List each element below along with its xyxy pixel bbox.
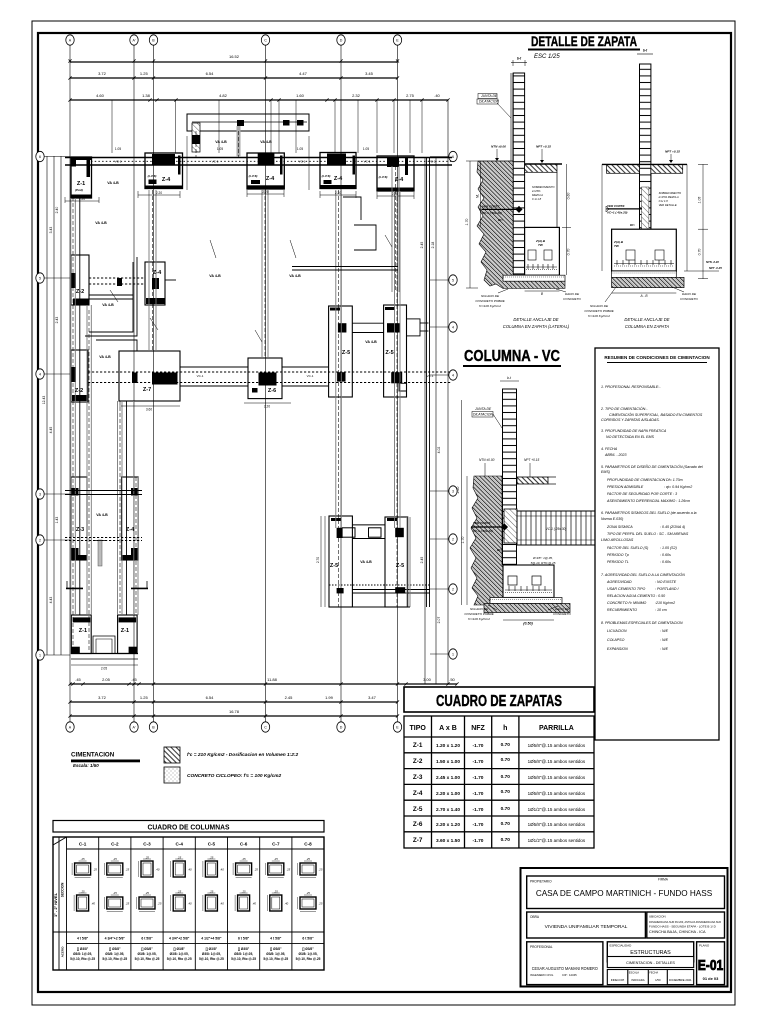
svg-text:CASA DE CAMPO MARTINICH - FUND: CASA DE CAMPO MARTINICH - FUNDO HASS [536,889,713,898]
svg-text:1Ø5/8"@.15 ambos sentidos: 1Ø5/8"@.15 ambos sentidos [528,791,586,796]
svg-text:2.20: 2.20 [156,191,162,195]
svg-text:: Df= 1.70m: : Df= 1.70m [664,478,683,482]
svg-text:ZONA SISMICA: ZONA SISMICA [606,525,633,529]
svg-text:Df=: Df= [497,548,502,552]
svg-text:5: 5 [39,276,41,280]
svg-text:3.60: 3.60 [146,408,152,412]
svg-text:RESUMEN DE CONDICIONES DE CIME: RESUMEN DE CONDICIONES DE CIMENTACION [604,355,710,360]
svg-text:4.02: 4.02 [437,447,441,454]
svg-text:2.18: 2.18 [431,242,435,249]
svg-text:1.05: 1.05 [363,147,369,151]
svg-text:Z-4: Z-4 [153,270,162,276]
svg-text:5@.10, Rto @.25: 5@.10, Rto @.25 [296,957,321,961]
svg-text:CONCRETO: CONCRETO [553,612,571,616]
svg-text:VC-1: VC-1 [364,160,371,164]
svg-text:DADO DE: DADO DE [682,292,697,296]
svg-text:Z-5: Z-5 [385,350,393,356]
svg-text:Z-3: Z-3 [413,774,423,781]
svg-text:1Ø5/8"@.15 ambos sentidos: 1Ø5/8"@.15 ambos sentidos [528,743,586,748]
svg-text:ESCALA: ESCALA [629,971,640,975]
svg-text:VC=1 (.40x.20): VC=1 (.40x.20) [607,211,627,215]
svg-text:CONCRETO: CONCRETO [563,297,581,301]
svg-text:2.60: 2.60 [456,487,460,495]
svg-text:SOBRECIMIENTO: SOBRECIMIENTO [659,191,682,195]
svg-text:2.45 x 1.00: 2.45 x 1.00 [436,775,460,781]
svg-text:EMS): EMS) [601,470,610,474]
svg-text:f'c=100 Kg/Cm2: f'c=100 Kg/Cm2 [468,617,490,621]
svg-text:EXPANSION: EXPANSION [607,647,628,651]
svg-text:D: D [340,38,343,42]
svg-text:1Ø5/8"@.15 ambos sentidos: 1Ø5/8"@.15 ambos sentidos [528,775,586,780]
svg-text:VC-1: VC-1 [197,374,204,378]
svg-text:1: 1 [39,653,41,657]
svg-text:f'c=100 Kg/Cm2: f'c=100 Kg/Cm2 [588,314,610,318]
svg-text:1.05: 1.05 [217,147,223,151]
svg-text:VC-1 (.40x.20): VC-1 (.40x.20) [473,529,493,533]
svg-text:DETALLE ANCLAJE DE: DETALLE ANCLAJE DE [513,317,558,322]
svg-text:VA 4-B: VA 4-B [96,513,108,517]
svg-text:ESTRUCTURAS: ESTRUCTURAS [630,950,671,956]
svg-text:1.99: 1.99 [325,695,334,700]
svg-text:4.47: 4.47 [299,71,308,76]
svg-text:1.50 x 1.00: 1.50 x 1.00 [436,759,460,765]
svg-text:[] Ø3/8": [] Ø3/8" [77,947,89,951]
svg-text:C:H 1:8: C:H 1:8 [659,199,669,203]
svg-text:-1.70: -1.70 [473,759,484,765]
svg-text:TIPO DE PERFIL DEL SUELO: TIPO DE PERFIL DEL SUELO : SC - SM ARENA… [607,532,689,536]
svg-text:Ø3/8: 1@.05,: Ø3/8: 1@.05, [105,952,124,956]
svg-text:PROFESIONAL: PROFESIONAL [530,945,553,949]
svg-text:e=15%: e=15% [532,189,541,193]
svg-text:Z-2: Z-2 [76,289,84,295]
svg-text:C-1: C-1 [79,842,87,847]
svg-text:VA 4-B: VA 4-B [215,140,227,144]
svg-text:6.54: 6.54 [206,695,215,700]
svg-text:C: C [264,725,267,729]
svg-text:DADO DE: DADO DE [555,607,570,611]
svg-text:1.05: 1.05 [297,147,303,151]
svg-text:[] Ø3/8": [] Ø3/8" [270,947,282,951]
svg-text:D: D [340,725,343,729]
svg-text:VC-1: VC-1 [115,160,122,164]
svg-text:4: 4 [452,325,454,329]
svg-text:0.60: 0.60 [567,193,571,200]
svg-text:E-01: E-01 [698,958,724,974]
svg-text:DETALLE DE ZAPATA: DETALLE DE ZAPATA [531,33,637,49]
svg-text:Ø3/8: 1@.05,: Ø3/8: 1@.05, [137,952,156,956]
svg-text:.45: .45 [75,677,81,682]
svg-text:CONCRETO CICLOPEO: f'c =: CONCRETO CICLOPEO: f'c = 100 Kg/cm2 [187,773,282,779]
svg-text:1Ø5/8"@.15 ambos sentidos: 1Ø5/8"@.15 ambos sentidos [528,759,586,764]
svg-text:3.47: 3.47 [368,695,377,700]
svg-text:5: 5 [452,278,454,282]
svg-text::210 Kg/cm2: :210 Kg/cm2 [655,601,675,605]
svg-text:Z-6: Z-6 [413,821,423,828]
svg-text:1.20: 1.20 [79,197,85,201]
svg-text:2.20 x 1.00: 2.20 x 1.00 [436,791,460,797]
svg-text:5@.10, Rto @.25: 5@.10, Rto @.25 [263,957,288,961]
svg-text:0.70: 0.70 [501,774,511,780]
svg-text:-1.70: -1.70 [473,822,484,828]
svg-text:0.70: 0.70 [501,837,511,843]
svg-text:A': A' [132,38,135,42]
svg-text:Z-4: Z-4 [266,176,275,182]
svg-text:CUADRO DE ZAPATAS: CUADRO DE ZAPATAS [436,693,562,710]
svg-text:NTN -0.20: NTN -0.20 [706,260,719,264]
svg-text:1.05: 1.05 [115,147,121,151]
svg-text:C-3: C-3 [143,842,151,847]
svg-text:: 0.45 (ZONA 4): : 0.45 (ZONA 4) [660,525,685,529]
svg-text:Z-1: Z-1 [121,628,129,634]
svg-text:AGRESIVIDAD: AGRESIVIDAD [606,580,632,584]
svg-text:Ø 3/8": 1@.05,: Ø 3/8": 1@.05, [532,556,553,560]
svg-text:f'c = 210 Kg/cm2 - Dos: f'c = 210 Kg/cm2 - Dosificacion en Volum… [187,752,299,758]
svg-text:MEZCLA: MEZCLA [532,193,543,197]
svg-text:C-8: C-8 [304,842,312,847]
svg-text:VC-1: VC-1 [212,160,219,164]
svg-text:NTN ±0.00: NTN ±0.00 [479,458,495,462]
svg-text:: N/E: : N/E [660,647,669,651]
svg-text:JUNTA DE: JUNTA DE [474,407,492,411]
svg-text:[] Ø3/8": [] Ø3/8" [109,947,121,951]
svg-text:DILATACION: DILATACION [473,413,493,417]
svg-text:2.05: 2.05 [102,677,111,682]
svg-text:CIMENTACIÓN SUPERFICIAL, BAS: CIMENTACIÓN SUPERFICIAL, BASADO EN CIMIE… [609,412,703,417]
svg-text:6 t 5/8": 6 t 5/8" [141,937,153,941]
svg-text:PRESION ADMISIBLE: PRESION ADMISIBLE [607,485,644,489]
svg-text:3.72: 3.72 [98,695,107,700]
svg-text:NPT -0.25: NPT -0.25 [709,266,722,270]
svg-text:JUNTA DE: JUNTA DE [480,94,498,98]
svg-text:CUADRO DE COLUMNAS: CUADRO DE COLUMNAS [148,823,230,832]
svg-text:4 1/2"+4 5/8": 4 1/2"+4 5/8" [201,937,222,941]
svg-text:6: 6 [452,155,454,159]
svg-text:5@.10, Rto @.25: 5@.10, Rto @.25 [231,957,256,961]
svg-text:e=15% MEZCLA: e=15% MEZCLA [659,195,679,199]
svg-text:C-6: C-6 [240,842,248,847]
svg-text:2.20: 2.20 [392,192,398,196]
svg-text:1Ø1/2"@.15 ambos sentidos: 1Ø1/2"@.15 ambos sentidos [528,807,586,812]
svg-text:16.78: 16.78 [229,709,240,714]
svg-text:TIPO: TIPO [410,725,427,732]
svg-text:11.88: 11.88 [267,677,277,682]
svg-text:2.70 x 1.40: 2.70 x 1.40 [436,807,460,813]
svg-text:1.43: 1.43 [55,517,59,524]
svg-text:[] Ø3/8": [] Ø3/8" [173,947,185,951]
svg-text:NFZ: NFZ [471,725,485,732]
svg-text:1.20 x 1.20: 1.20 x 1.20 [436,743,460,749]
svg-text:2.45: 2.45 [420,242,424,249]
svg-text:VA 4-B: VA 4-B [95,221,107,225]
svg-text:: 0.60s: : 0.60s [660,553,671,557]
svg-text:Z-5: Z-5 [413,806,423,813]
svg-text:CONCRETO POBRE: CONCRETO POBRE [584,309,614,313]
svg-text:1/50: 1/50 [655,978,661,982]
svg-text:[] Ø3/8": [] Ø3/8" [302,947,314,951]
svg-text:RELACION AGUA CEMENTO :: RELACION AGUA CEMENTO : 0.50 [607,594,665,598]
svg-text:Z-2: Z-2 [413,758,423,765]
svg-text:2.45: 2.45 [420,557,424,564]
svg-text:SECCION: SECCION [61,882,65,897]
svg-text:2.07: 2.07 [437,617,441,624]
svg-text:1.70: 1.70 [465,219,469,226]
svg-text:.45: .45 [131,677,137,682]
svg-text:: PORTLAND I: : PORTLAND I [655,587,679,591]
svg-text:: 10 cm: : 10 cm [655,608,667,612]
svg-text:6 t 5/8": 6 t 5/8" [302,937,314,941]
svg-text:4 3/4"+2 5/8": 4 3/4"+2 5/8" [169,937,190,941]
svg-text:VER CORTE: VER CORTE [607,204,625,208]
svg-text:C:H 1:8: C:H 1:8 [532,197,542,201]
svg-text:Ø3/8: 1@.05,: Ø3/8: 1@.05, [202,952,221,956]
svg-text:01 de 03: 01 de 03 [703,976,720,981]
svg-text:4.82: 4.82 [219,93,228,98]
svg-text:f'c=100 Kg/Cm2: f'c=100 Kg/Cm2 [479,304,501,308]
svg-text:NL: NL [475,194,479,198]
svg-text:Z-1: Z-1 [79,628,87,634]
svg-text:ABRIL - 2023: ABRIL - 2023 [604,453,627,457]
svg-text:0.70: 0.70 [501,821,511,827]
svg-text:VA 4-B: VA 4-B [209,274,221,278]
svg-text:6.54: 6.54 [206,71,215,76]
svg-text:PLANO: PLANO [699,944,710,948]
svg-text:8. PROBLEMAS ESPECIALES DE: 8. PROBLEMAS ESPECIALES DE CIMENTACION [601,621,683,625]
svg-text:NPT +0.15: NPT +0.15 [536,145,551,149]
svg-text:Z-7: Z-7 [143,387,151,393]
svg-text:2.20: 2.20 [262,190,268,194]
svg-text:(L.P.6): (L.P.6) [148,174,157,178]
svg-text:3. PROFUNDIDAD DE NAPA FRE: 3. PROFUNDIDAD DE NAPA FREATICA [601,429,667,433]
svg-text:3.43: 3.43 [49,227,53,234]
svg-text:Ø3/8: 1@.05,: Ø3/8: 1@.05, [298,952,317,956]
svg-text:VA 4-B: VA 4-B [107,181,119,185]
svg-text:4 t 5/8": 4 t 5/8" [270,937,282,941]
svg-text:PANAMERICANA SUR KM 203, ANTIG: PANAMERICANA SUR KM 203, ANTIGUA PANAMER… [649,920,722,924]
svg-text:NPT +0.15: NPT +0.15 [665,150,680,154]
svg-text:PROFUNDIDAD DE CIMENTACION: PROFUNDIDAD DE CIMENTACION [607,478,666,482]
svg-text:TIP.: TIP. [614,244,619,248]
svg-text:1.60: 1.60 [296,93,305,98]
svg-text:-1.70: -1.70 [473,775,484,781]
svg-text:NO DETECTADA EN EL EMS: NO DETECTADA EN EL EMS [606,435,654,439]
svg-text:C: C [264,38,267,42]
svg-text:Ø3/8: 1@.05,: Ø3/8: 1@.05, [170,952,189,956]
svg-text:6 t 5/8": 6 t 5/8" [238,937,250,941]
svg-text:VA 4-B: VA 4-B [260,140,272,144]
svg-text:Z-6: Z-6 [268,388,276,394]
svg-text:FIRMA: FIRMA [658,878,669,882]
svg-text:C-5: C-5 [208,842,216,847]
svg-text:VC-1: VC-1 [427,374,434,378]
svg-text:USAR CEMENTO TIPO: USAR CEMENTO TIPO [607,587,645,591]
svg-text:1.25: 1.25 [140,695,149,700]
svg-text:VC-1: VC-1 [429,160,436,164]
svg-text:LICUACION: LICUACION [607,629,627,633]
svg-text:A': A' [132,725,135,729]
svg-text:CHINCHA BAJA, CHINCHA - ICA: CHINCHA BAJA, CHINCHA - ICA [649,930,706,934]
svg-text:2.75: 2.75 [406,93,415,98]
svg-text:2. TIPO DE CIMENTACIÓN:-: 2. TIPO DE CIMENTACIÓN:- [600,406,648,411]
svg-text:ACERO: ACERO [61,946,65,958]
svg-text:-1.70: -1.70 [473,838,484,844]
svg-text:2: 2 [452,587,454,591]
svg-text:DADO DE: DADO DE [565,292,580,296]
svg-text:RECUBRIMIENTO: RECUBRIMIENTO [607,608,637,612]
svg-text:4 3/4"+2 5/8": 4 3/4"+2 5/8" [105,937,126,941]
svg-text:1° - 2° NIVEL: 1° - 2° NIVEL [53,892,58,917]
svg-text:2: 2 [452,537,454,541]
svg-text:(L.P.6): (L.P.6) [379,175,388,179]
svg-text:FACTOR DEL SUELO (S): FACTOR DEL SUELO (S) [607,546,648,550]
svg-text:Z-4: Z-4 [395,177,404,183]
svg-text:Z-1: Z-1 [77,181,85,187]
svg-text:Ø3/8: 1@.05,: Ø3/8: 1@.05, [234,952,253,956]
svg-text:C-2: C-2 [111,842,119,847]
svg-text:[] Ø3/8": [] Ø3/8" [238,947,250,951]
svg-text:VA 4-B: VA 4-B [365,340,377,344]
svg-text:INDICADA: INDICADA [631,978,644,982]
svg-text:VC-1: VC-1 [307,374,314,378]
svg-text:1.25: 1.25 [140,71,149,76]
svg-text:CIMENTACION - DETALLES: CIMENTACION - DETALLES [626,961,675,965]
svg-text:3.45: 3.45 [365,71,374,76]
svg-text:2.43: 2.43 [55,317,59,324]
svg-text:Z-4: Z-4 [126,527,135,533]
svg-text:FACTOR DE SEGURIDAD POR CO: FACTOR DE SEGURIDAD POR CORTE : 3 [607,492,677,496]
svg-text:Z-5: Z-5 [330,563,338,569]
svg-text:4 t 5/8": 4 t 5/8" [77,937,89,941]
svg-text:Df=: Df= [630,223,635,227]
svg-text:Z-4: Z-4 [413,790,423,797]
svg-text:VC-1 (.25x.30): VC-1 (.25x.30) [546,527,567,531]
svg-text:1.05: 1.05 [698,197,702,204]
svg-text:1.38: 1.38 [142,93,151,98]
svg-text:C-4: C-4 [175,842,183,847]
svg-text:PERIODO Tp: PERIODO Tp [607,553,629,557]
svg-text:ASENTAMIENTO DIFERENCIAL MAX: ASENTAMIENTO DIFERENCIAL MAXIMO : 1.26cm [606,499,690,503]
svg-text:3: 3 [39,492,41,496]
svg-text:PARRILLA: PARRILLA [539,725,574,732]
svg-text:Z-4: Z-4 [334,176,343,182]
svg-text:-1.70: -1.70 [473,807,484,813]
svg-text:0.70: 0.70 [501,757,511,763]
svg-text:4.45: 4.45 [49,427,53,434]
svg-text:UBICACION: UBICACION [649,915,666,919]
svg-text:Z-7: Z-7 [413,837,423,844]
svg-text:4.60: 4.60 [96,93,105,98]
svg-text:1. PROFESIONAL RESPONSABLE:-: 1. PROFESIONAL RESPONSABLE:- [601,385,661,389]
svg-text:: N/E: : N/E [660,638,669,642]
svg-text:5@.10, RTO.@.25: 5@.10, RTO.@.25 [531,561,556,565]
svg-text:4.43: 4.43 [49,597,53,604]
svg-text:VA 4-B: VA 4-B [99,355,111,359]
svg-text:LIMO ARCILLOSAS: LIMO ARCILLOSAS [601,538,634,542]
svg-text:0.70: 0.70 [501,742,511,748]
svg-text:: NO EXISTE: : NO EXISTE [655,580,677,584]
svg-text:PERIODO TL: PERIODO TL [607,560,629,564]
svg-text:INGENIERO CIVIL: INGENIERO CIVIL [530,973,554,977]
svg-text:Df=: Df= [498,218,503,222]
svg-text:2.70: 2.70 [316,557,320,563]
svg-text:OBRA: OBRA [530,915,540,919]
svg-text:Z-3: Z-3 [76,527,84,533]
svg-text:1Ø1/2"@.15 ambos sentidos: 1Ø1/2"@.15 ambos sentidos [528,838,586,843]
svg-text:3.72: 3.72 [98,71,107,76]
svg-text:4. FECHA: 4. FECHA [601,447,618,451]
svg-text:NTN ±0.00: NTN ±0.00 [491,145,506,149]
svg-text:4: 4 [452,373,454,377]
svg-text:CONCRETO POBRE: CONCRETO POBRE [464,612,494,616]
svg-text:VC-1 (.40x.20): VC-1 (.40x.20) [482,211,502,215]
svg-text:INDECOPI: INDECOPI [611,978,625,982]
svg-text:CIP : 12345: CIP : 12345 [562,973,577,977]
svg-text:COLUMNA EN ZAPATA (LATERAL): COLUMNA EN ZAPATA (LATERAL) [503,324,570,329]
svg-text:DILATACION: DILATACION [479,100,499,104]
svg-text:3.60 x 1.50: 3.60 x 1.50 [436,838,460,844]
svg-text:h: h [503,725,507,732]
svg-text:(L.P.6): (L.P.6) [249,174,258,178]
svg-text:Ø3/8: 1@.05,: Ø3/8: 1@.05, [266,952,285,956]
svg-text:CONCRETO f'c MINIMO: CONCRETO f'c MINIMO [607,601,647,605]
svg-text:SOLADO DE: SOLADO DE [481,294,500,298]
svg-text:0.70: 0.70 [501,789,511,795]
svg-text:(L.P.6): (L.P.6) [322,174,331,178]
svg-text:ESPECIALIDAD: ESPECIALIDAD [610,944,633,948]
svg-text:2: 2 [39,538,41,542]
svg-text:12.43: 12.43 [42,396,46,405]
svg-text:Ø3/8: 1@.05,: Ø3/8: 1@.05, [73,952,92,956]
svg-text:CESAR AUGUSTO MAMANI ROMERO: CESAR AUGUSTO MAMANI ROMERO [532,966,598,971]
svg-text:1.70: 1.70 [461,537,465,544]
svg-text:Z-5: Z-5 [342,350,350,356]
svg-text:5@.10, Rto @.25: 5@.10, Rto @.25 [135,957,160,961]
svg-text:C-7: C-7 [272,842,280,847]
svg-text:CORRIDOS Y ZAPATAS AISLADAS: CORRIDOS Y ZAPATAS AISLADAS. [601,418,660,422]
svg-text:2.05: 2.05 [101,667,107,671]
svg-text:7. AGRESIVIDAD DEL SUELO A: 7. AGRESIVIDAD DEL SUELO A LA CIMENTACIÓ… [601,572,685,577]
svg-text:(0.50): (0.50) [523,622,533,626]
svg-text:5@.10, Rto @.25: 5@.10, Rto @.25 [102,957,127,961]
svg-text:-1.70: -1.70 [473,791,484,797]
svg-text:TIP.: TIP. [538,243,543,247]
svg-text:2.40: 2.40 [55,207,59,214]
svg-text:DETALLE ANCLAJE DE: DETALLE ANCLAJE DE [624,317,669,322]
svg-text:2.20: 2.20 [264,405,270,409]
svg-text:0.70: 0.70 [501,806,511,812]
svg-text:6. PARAMETROS SISMICOS DEL: 6. PARAMETROS SISMICOS DEL SUELO (de acu… [601,511,697,515]
svg-text:CONCRETO POBRE: CONCRETO POBRE [475,299,505,303]
svg-text:.40: .40 [434,93,440,98]
svg-text:DICIEMBRE 2021: DICIEMBRE 2021 [669,978,692,982]
svg-text:Z-1: Z-1 [413,742,423,749]
svg-text:0.70: 0.70 [567,249,571,256]
svg-text:VC-1: VC-1 [299,160,306,164]
svg-text:5@.10, Rto @.25: 5@.10, Rto @.25 [199,957,224,961]
svg-text:1Ø5/8"@.15 ambos sentidos: 1Ø5/8"@.15 ambos sentidos [528,822,586,827]
svg-text:SOBRECIMIENTO: SOBRECIMIENTO [532,185,555,189]
svg-text:VER CORTE: VER CORTE [482,205,500,209]
svg-text:: 0.60s: : 0.60s [660,560,671,564]
svg-text:Escala: 1/50: Escala: 1/50 [73,763,99,768]
svg-text:VIVIENDA UNIFAMILIAR TEMPORAL: VIVIENDA UNIFAMILIAR TEMPORAL [545,924,628,930]
svg-text:ESC 1/25: ESC 1/25 [534,54,560,60]
svg-text:VA 4-B: VA 4-B [289,274,301,278]
svg-text:VA 4-B: VA 4-B [102,303,114,307]
svg-text:2.20: 2.20 [335,191,341,195]
svg-text:: 1.05 (S2): : 1.05 (S2) [660,546,677,550]
svg-text:Z-2: Z-2 [75,388,83,394]
svg-text:2.45: 2.45 [285,695,294,700]
